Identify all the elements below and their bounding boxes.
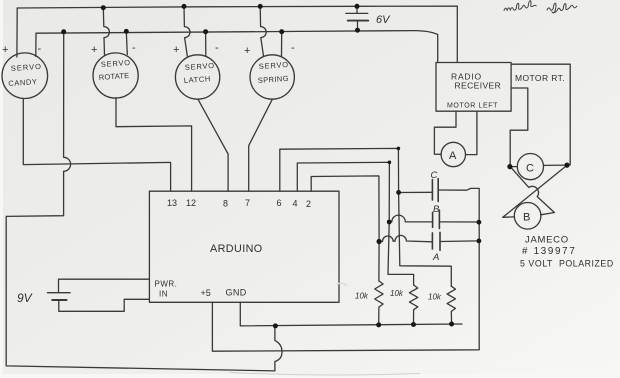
node: cap A left junction	[377, 239, 382, 244]
svg-text:IN: IN	[159, 290, 168, 299]
svg-text:12: 12	[186, 198, 196, 208]
svg-text:-: -	[132, 42, 136, 54]
svg-text:LATCH: LATCH	[184, 74, 212, 85]
svg-text:+: +	[244, 45, 250, 57]
svg-text:5 VOLT POLARIZED: 5 VOLT POLARIZED	[520, 259, 614, 269]
wire: radio receiver to motor-left circle A left	[434, 111, 456, 154]
svg-text:9V: 9V	[17, 291, 33, 305]
wire: servo ROTATE bottom to Arduino pin 12	[116, 98, 192, 192]
node: motor right right dot	[564, 163, 569, 168]
wire: second bus drop to servo CANDY minus	[35, 33, 37, 56]
node: top bus / 6V battery	[355, 4, 360, 9]
svg-text:C: C	[431, 170, 438, 181]
svg-text:10k: 10k	[428, 293, 442, 302]
node: top bus / rotate plus	[101, 5, 106, 10]
node: second bus / rotate minus	[124, 29, 129, 34]
resistor R1 10k	[375, 281, 383, 325]
wire: motor-right crossing diagonal left-to-right with hop	[511, 167, 555, 213]
wire: servo SPRING bottom to Arduino pin 7	[249, 99, 273, 191]
svg-text:-: -	[38, 43, 42, 55]
svg-text:JAMECO: JAMECO	[525, 235, 569, 246]
servo M2 circle SERVO ROTATE	[93, 53, 138, 98]
wire: radio receiver to motor-right left side	[510, 88, 528, 166]
svg-text:# 139977: # 139977	[522, 246, 576, 257]
Arduino box U1	[149, 191, 339, 302]
wire: cap C right to +5 right bus and +5 bus to Arduino	[212, 188, 479, 351]
wire: top bus drop to servo CANDY plus	[16, 8, 18, 57]
node: cap B left junction	[387, 220, 392, 225]
wire: servo SPRING minus	[281, 32, 283, 56]
wire: motor-right base right segment	[541, 213, 555, 215]
svg-text:13: 13	[167, 198, 177, 208]
node: GND bus / R3	[449, 322, 454, 327]
node: pin6 corner	[397, 147, 401, 151]
node: cap A right / +5 bus	[477, 239, 482, 244]
servo M3 circle SERVO LATCH	[175, 55, 219, 99]
signature top right	[504, 1, 577, 13]
wire: top bus drop to radio receiver	[456, 6, 458, 62]
battery B2 9V	[48, 293, 71, 300]
svg-text:B: B	[433, 204, 440, 215]
capacitor B (middle) with hop over pin6 wire	[389, 210, 479, 229]
radio receiver box	[436, 63, 511, 112]
wire: Arduino pin 2 to cap A junction and resistor R1	[311, 176, 379, 281]
node: GND bus / feeder	[273, 323, 278, 328]
svg-text:MOTOR LEFT: MOTOR LEFT	[447, 103, 498, 110]
motor-right circle B	[514, 203, 541, 230]
wire: servo LATCH plus with hop	[184, 6, 190, 56]
wire: 9V minus to Arduino PWR IN	[59, 299, 150, 311]
node: second bus / latch minus	[203, 29, 208, 34]
svg-text:-: -	[291, 42, 295, 54]
node: second bus / spring minus	[279, 29, 284, 34]
svg-text:10k: 10k	[390, 289, 404, 298]
resistor R3 10k	[447, 286, 455, 324]
stray faint marks	[230, 373, 420, 376]
svg-text:4: 4	[293, 199, 298, 209]
wire: Arduino pin 4 to cap B junction and resistor R2	[297, 162, 413, 285]
wire: Arduino pin 6 to cap C junction and resistor R3	[280, 148, 452, 286]
node: pin4 corner	[388, 161, 392, 165]
svg-text:B: B	[523, 212, 530, 224]
svg-text:+: +	[173, 44, 179, 56]
capacitor C (top)	[399, 179, 439, 202]
node: cap B right / +5 bus	[477, 220, 482, 225]
wire: motor C left lead	[510, 166, 518, 168]
svg-text:A: A	[449, 150, 457, 162]
resistor R2 10k	[409, 285, 417, 325]
wire: radio receiver top-right to motor-right right side	[511, 64, 570, 165]
wire: servo ROTATE plus with hop over second bus	[103, 8, 109, 55]
node: motor right left dot	[507, 164, 512, 169]
svg-text:ARDUINO: ARDUINO	[210, 243, 263, 255]
wire: motor-right base left segment	[503, 216, 515, 218]
node: second bus / ground feeder	[61, 29, 66, 34]
svg-text:RECEIVER: RECEIVER	[455, 81, 502, 91]
wire: 9V plus to Arduino PWR IN	[59, 279, 150, 292]
battery B1 6V	[346, 6, 368, 30]
node: top bus / spring plus	[258, 4, 263, 9]
svg-text:+: +	[91, 44, 97, 56]
wire: +6V top bus	[17, 6, 457, 8]
servo M1 circle SERVO CANDY	[2, 53, 48, 99]
wire: servo LATCH bottom to Arduino pin 8	[198, 99, 228, 191]
wire: motor C right lead	[544, 164, 568, 166]
svg-text:10k: 10k	[355, 292, 369, 301]
wire: servo LATCH minus	[205, 32, 207, 56]
motor-left circle A	[441, 142, 465, 166]
wire: servo SPRING plus with hop	[260, 6, 266, 56]
svg-text:MOTOR RT.: MOTOR RT.	[515, 73, 565, 83]
wire: second bus (6V minus)	[36, 31, 438, 63]
svg-text:+5: +5	[201, 288, 211, 298]
node: GND bus / R2	[411, 322, 416, 327]
svg-text:2: 2	[306, 199, 311, 209]
wire: ground feeder loop (left edge, bottom) with hops	[6, 32, 282, 371]
servo M4 circle SERVO SPRING	[250, 55, 294, 99]
svg-text:7: 7	[245, 198, 250, 208]
node: second bus / 6V battery	[355, 28, 360, 33]
wire: motor-right crossing diagonal right-to-left	[503, 165, 567, 217]
wire: radio receiver to motor-left circle A right	[466, 111, 477, 154]
svg-text:GND: GND	[226, 288, 247, 298]
wire: servo ROTATE minus	[126, 31, 127, 54]
svg-text:A: A	[432, 252, 439, 263]
capacitor A (bottom) with hops over pin4 and pin6 wires	[379, 232, 479, 250]
node: cap C left junction	[396, 190, 401, 195]
node: GND bus / R1	[376, 322, 381, 327]
motor-right circle C	[517, 154, 543, 180]
svg-text:+: +	[2, 44, 8, 56]
svg-text:-: -	[215, 42, 219, 54]
node: top bus / latch plus	[182, 4, 187, 9]
svg-text:C: C	[526, 163, 534, 175]
wire: servo CANDY bottom to Arduino pin 13	[23, 99, 170, 192]
svg-text:8: 8	[223, 199, 228, 209]
svg-text:6: 6	[277, 198, 282, 208]
wire: GND bus from Arduino GND pin	[240, 302, 462, 326]
svg-text:PWR.: PWR.	[155, 280, 178, 289]
svg-text:6V: 6V	[376, 14, 391, 26]
